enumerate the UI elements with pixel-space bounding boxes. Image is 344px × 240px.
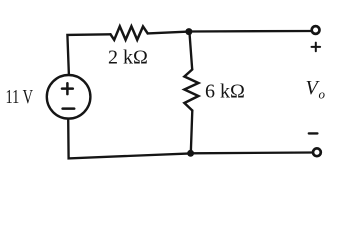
node: top junction dot [185, 28, 192, 35]
svg-text:2 kΩ: 2 kΩ [108, 47, 148, 69]
svg-text:o: o [319, 87, 326, 102]
terminal: - output (open circle) [313, 148, 321, 156]
svg-text:11 V: 11 V [6, 86, 34, 108]
wire: 2k resistor to top node [148, 32, 189, 34]
wire: bottom node to - output terminal [191, 151, 313, 154]
svg-text:6 kΩ: 6 kΩ [205, 81, 245, 103]
wire: top node to + output terminal [189, 30, 312, 33]
wire: 6k resistor to bottom node [191, 111, 193, 154]
wire: source bottom to bottom-left corner to bottom node [68, 119, 190, 159]
terminal: + output (open circle) [312, 26, 320, 34]
label + at output [312, 43, 321, 52]
wire: top node down to 6k resistor [189, 32, 192, 70]
node: bottom junction dot [187, 150, 194, 157]
resistor R 2 kOhm (horizontal zigzag) [111, 26, 148, 40]
wire: source top to top-left corner to 2k resistor [67, 34, 110, 75]
label - at output [309, 132, 318, 134]
resistor R 6 kOhm (vertical zigzag) [184, 70, 198, 111]
voltage source 11 V (circle with polarity) [47, 75, 91, 119]
